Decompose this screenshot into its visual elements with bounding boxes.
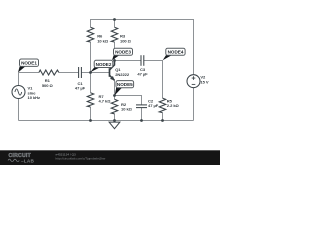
transistor Q1 emitter arrowhead bbox=[110, 76, 115, 81]
label R1 value bbox=[42, 78, 54, 88]
capacitor C3 bbox=[141, 55, 144, 66]
voltage source V2 bbox=[187, 75, 200, 88]
wire R3 top lead bbox=[114, 20, 116, 28]
svg-text:47 µF: 47 µF bbox=[148, 103, 159, 108]
node junction dot (top rail / R3) bbox=[113, 18, 116, 21]
footer info text bbox=[56, 152, 106, 160]
node NODE4 label bbox=[163, 48, 185, 60]
node junction dot (R7 bottom) bbox=[89, 119, 92, 122]
resistor R7 bbox=[87, 93, 93, 107]
svg-text:NODE2: NODE2 bbox=[96, 62, 112, 67]
svg-text:NODE3: NODE3 bbox=[115, 50, 131, 55]
svg-text:http://circuitlab.com/c/7jqmdw: http://circuitlab.com/c/7jqmdwbn2hw bbox=[56, 156, 106, 160]
svg-text:47 µF: 47 µF bbox=[75, 86, 86, 91]
svg-text:NODE5: NODE5 bbox=[117, 82, 133, 87]
label C1 value bbox=[75, 81, 86, 91]
svg-text:500 Ω: 500 Ω bbox=[42, 83, 54, 88]
wire V1 top lead bbox=[18, 73, 20, 86]
svg-text:NODE1: NODE1 bbox=[21, 61, 37, 66]
label C3 value bbox=[137, 67, 148, 77]
svg-text:–LAB: –LAB bbox=[21, 159, 34, 164]
svg-text:15 V: 15 V bbox=[200, 80, 208, 85]
label R2 value bbox=[121, 102, 133, 111]
node NODE1 label bbox=[18, 59, 39, 73]
label R7 value bbox=[99, 94, 112, 104]
footer watermark bar bbox=[0, 150, 220, 165]
label C2 value bbox=[148, 99, 159, 108]
svg-text:NODE4: NODE4 bbox=[168, 50, 184, 55]
wire V2 bottom to bottom rail bbox=[193, 88, 195, 121]
node NODE3 label bbox=[112, 48, 133, 60]
label R3 value bbox=[120, 34, 132, 44]
label R5 value bbox=[167, 99, 180, 108]
svg-text:2N2222: 2N2222 bbox=[115, 72, 130, 77]
resistor R5 bbox=[159, 98, 165, 113]
wire emitter node to C2 bbox=[115, 96, 142, 105]
wire bottom rail bbox=[19, 120, 194, 122]
node junction dot (emitter branch) bbox=[113, 94, 116, 97]
capacitor C2 bbox=[136, 105, 147, 108]
wire base junction to R7 bbox=[90, 73, 92, 93]
node junction dot (collector) bbox=[113, 59, 116, 62]
footer CircuitLab logo bbox=[8, 153, 34, 164]
svg-text:4.7 kΩ: 4.7 kΩ bbox=[99, 99, 112, 104]
svg-text:47 µF: 47 µF bbox=[137, 72, 148, 77]
wire R3 bottom lead bbox=[114, 42, 116, 61]
node junction dot (R5 bottom) bbox=[161, 119, 164, 122]
wire collector node to C3 bbox=[115, 60, 141, 62]
resistor R1 bbox=[39, 70, 59, 75]
ground bbox=[109, 121, 120, 129]
wire R2 bottom lead bbox=[114, 114, 116, 121]
wire C3 to NODE4 corner down to R5 bbox=[143, 61, 162, 99]
svg-text:10 kΩ: 10 kΩ bbox=[121, 106, 133, 111]
svg-text:2.2 kΩ: 2.2 kΩ bbox=[167, 103, 180, 108]
wire C1 to base junction bbox=[82, 72, 110, 74]
wire emitter to R2 bbox=[114, 80, 116, 99]
wire R5 bottom lead bbox=[162, 113, 164, 121]
svg-text:100 Ω: 100 Ω bbox=[120, 38, 132, 43]
wire C2 bottom lead bbox=[141, 108, 143, 121]
wire R7 bottom lead bbox=[90, 107, 92, 121]
resistor R6 bbox=[87, 27, 93, 42]
wire NODE1 corner to R1 bbox=[19, 72, 39, 74]
resistor R3 bbox=[111, 27, 117, 42]
svg-text:10 kHz: 10 kHz bbox=[28, 95, 41, 100]
label Q1 value bbox=[115, 67, 130, 77]
node junction dot (R2 / ground) bbox=[113, 119, 116, 122]
label V1 value bbox=[28, 85, 41, 100]
capacitor C1 bbox=[79, 67, 82, 78]
node NODE2 label bbox=[90, 60, 113, 72]
transistor Q1 bbox=[110, 61, 115, 81]
label R6 value bbox=[97, 34, 109, 44]
wire R6 bottom to base junction bbox=[90, 42, 92, 73]
node junction dot (C2 bottom) bbox=[140, 119, 143, 122]
node junction dot (base / R6 / R7) bbox=[89, 71, 92, 74]
voltage source V1 bbox=[12, 86, 25, 99]
svg-text:10 kΩ: 10 kΩ bbox=[97, 38, 109, 43]
node NODE5 label bbox=[115, 81, 134, 96]
wire top rail from R6 top to V2 top bbox=[91, 20, 194, 75]
resistor R2 bbox=[111, 99, 117, 114]
wire R1 to C1 bbox=[59, 72, 78, 74]
label V2 value bbox=[200, 75, 208, 85]
wire V1 bottom lead bbox=[18, 99, 20, 121]
